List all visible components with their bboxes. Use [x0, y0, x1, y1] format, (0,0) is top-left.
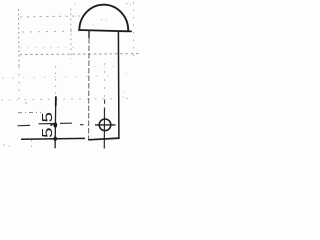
faint vertical construction line x19 lower	[18, 66, 20, 102]
dimension extension line from bottom	[21, 137, 85, 140]
very faint horizontal y47.5	[20, 46, 75, 49]
faint projection line horizontal y77	[2, 76, 118, 78]
faint vertical dimension extension above x55.6	[55, 66, 57, 96]
shank bottom line	[88, 138, 119, 140]
hole vertical centerline short dash above circle	[104, 100, 106, 104]
hole circle	[99, 119, 111, 131]
dimension arrowhead lower	[54, 137, 57, 141]
hole horizontal centerline dash right of dimension line	[60, 122, 72, 124]
dimension line vertical x55	[54, 97, 57, 149]
dimension line darker top segment	[55, 96, 57, 106]
hole vertical centerline dark through circle to bottom	[103, 108, 105, 149]
hole horizontal centerline dash through text gap	[39, 123, 57, 125]
faint speckles inside head	[101, 19, 103, 21]
shank right line	[117, 31, 120, 138]
faint vertical construction line x71	[70, 9, 72, 60]
dimension arrowhead upper	[54, 122, 58, 128]
faint vertical construction line x133 head edge projection	[133, 2, 135, 58]
faint vertical construction line x19 upper	[18, 9, 21, 66]
hole horizontal centerline through circle	[95, 124, 116, 126]
faint vertical below text x31.5	[31, 140, 33, 150]
very faint dots y66.5	[94, 65, 118, 67]
hole horizontal centerline dash x18-30	[18, 124, 31, 126]
shank left line upper dark segment	[88, 31, 90, 39]
scan speckles	[25, 102, 26, 103]
head base line	[78, 30, 132, 31]
faint projection line horizontal y16	[20, 16, 80, 17]
faint projection line horizontal y31	[22, 31, 79, 32]
hole vertical centerline above circle	[104, 63, 106, 99]
faint projection line horizontal y99	[1, 99, 130, 101]
shank left line (faint broken)	[88, 38, 90, 140]
rivet head arc	[79, 5, 128, 31]
dimension text 5,5 rotated	[42, 113, 54, 137]
faint fold line horizontal y54 dotted	[20, 54, 140, 55]
small dash-dot segment y112.5 left	[18, 111, 41, 113]
hole horizontal centerline dot x80	[80, 124, 84, 126]
